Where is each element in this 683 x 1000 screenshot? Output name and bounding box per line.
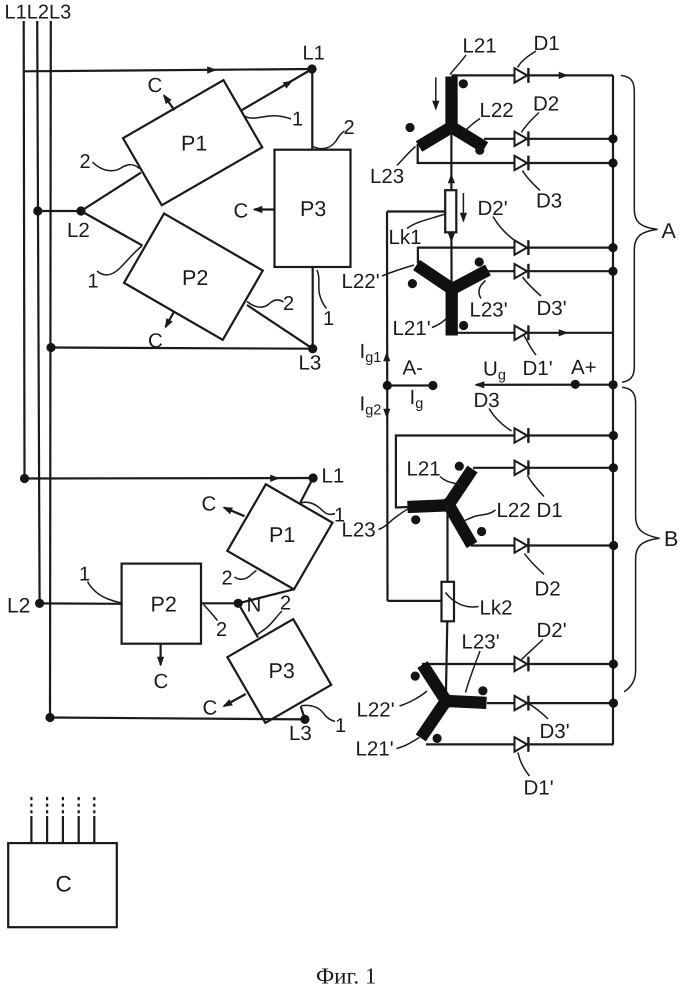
diode D3' [515, 264, 529, 279]
wire Y B1 center to Lk2 [446, 505, 448, 582]
svg-text:L22: L22 [497, 499, 531, 522]
winding of B: thick Y rotated [408, 469, 473, 545]
leader 2 of bottom P2 [204, 605, 218, 621]
transformer P3 (top) [275, 150, 351, 267]
node L3 [308, 344, 317, 353]
arrow down below Lk1 [448, 233, 455, 243]
node L1 bottom [309, 473, 318, 482]
wire Lk2 to Y B2 [446, 621, 448, 700]
svg-text:2: 2 [80, 151, 91, 173]
transformer P2 (top) [124, 214, 263, 340]
wire D1' row A [455, 332, 613, 334]
svg-text:C: C [154, 670, 169, 693]
svg-text:1: 1 [292, 109, 303, 131]
svg-text:Ig: Ig [410, 386, 424, 412]
wire D3' row A [486, 270, 613, 272]
diode D1 B [515, 460, 529, 475]
svg-text:A-: A- [403, 357, 424, 380]
svg-text:A: A [662, 219, 677, 243]
leader 1 of P2 [97, 246, 142, 275]
node L1 top [307, 64, 316, 73]
wire D1 row A [452, 74, 614, 76]
arrow C from P1 [164, 96, 175, 111]
svg-text:D2': D2' [537, 619, 567, 642]
wire L2 vertical feeder [37, 21, 39, 603]
node N [234, 599, 243, 608]
svg-text:Ug: Ug [483, 358, 506, 384]
svg-text:D2': D2' [478, 197, 508, 220]
wire L3 vertical feeder [49, 21, 52, 718]
wire D1' row B [426, 743, 613, 745]
svg-text:L1L2L3: L1L2L3 [5, 2, 72, 24]
svg-text:2: 2 [280, 593, 291, 615]
wire P3 to L3 bottom [301, 706, 305, 719]
brace A [621, 75, 658, 382]
svg-text:D1': D1' [524, 777, 554, 800]
arrow C from P3 [254, 208, 275, 210]
transformer P1 (top) [123, 80, 262, 205]
node on L1 feeder bottom [20, 474, 29, 483]
svg-text:D2: D2 [533, 93, 559, 116]
svg-text:L22': L22' [342, 270, 380, 293]
leader 2 of P1 [93, 162, 140, 171]
wire P2 to L3 [247, 305, 313, 349]
leader 2 of P2 [247, 300, 284, 307]
winding dots Y A2 [408, 279, 417, 288]
diode D1' [515, 325, 529, 340]
node L2 [76, 206, 85, 215]
leader 1 of bottom P3 [301, 705, 335, 721]
svg-text:C: C [203, 697, 218, 720]
diode D2' B [515, 657, 529, 672]
svg-text:P2: P2 [182, 266, 208, 290]
svg-text:L23: L23 [370, 165, 404, 188]
wire left bus A [386, 212, 389, 601]
svg-text:L3: L3 [289, 722, 312, 745]
transformer P1 (bottom) [227, 484, 332, 589]
svg-text:D1: D1 [537, 499, 563, 522]
wire Ug arrow row [476, 384, 613, 386]
node A- terminal [428, 381, 437, 390]
arrow on top L1 row [207, 66, 217, 73]
wire L2 to P2 bottom [40, 602, 122, 605]
wire D2 row A [484, 138, 613, 140]
svg-text:L2: L2 [67, 219, 90, 242]
svg-text:2: 2 [222, 568, 233, 590]
wire L2 to P1 winding 2 [81, 173, 141, 211]
arrow Ig2 down on left bus [383, 409, 390, 419]
svg-text:P3: P3 [269, 659, 295, 683]
svg-text:D1: D1 [534, 32, 560, 55]
node A+ bus [609, 380, 618, 389]
svg-text:L23: L23 [342, 519, 376, 542]
node A+ terminal [571, 380, 580, 389]
wire D3 row B [396, 436, 614, 508]
wire top L1 row [24, 69, 312, 71]
wire N to P2 [201, 602, 238, 604]
svg-text:L21: L21 [407, 458, 441, 481]
svg-text:2: 2 [216, 619, 227, 641]
svg-text:N: N [247, 594, 262, 617]
winding L21 of A: thick Y [419, 77, 485, 148]
wire L1 to P1 winding 1 [242, 69, 312, 110]
node A- bus [383, 381, 392, 390]
wire Y A1 center to Lk1 [450, 130, 452, 190]
arrow Ig1 up on left bus [383, 352, 390, 362]
node L2 on feeder [33, 206, 42, 215]
winding dots Y B1 [455, 462, 464, 471]
pin lines of C [31, 797, 94, 843]
svg-text:P2: P2 [151, 593, 177, 617]
svg-text:P1: P1 [269, 523, 295, 547]
arrow C from bottom P1 [224, 508, 245, 517]
wire A- stub [387, 384, 433, 386]
svg-text:D3': D3' [540, 720, 570, 743]
wire D2' row B [422, 663, 613, 665]
wire P3 to L3 [312, 267, 314, 349]
wire L1 to P3 primary [311, 69, 313, 150]
svg-text:L1: L1 [322, 465, 345, 488]
svg-text:1: 1 [88, 271, 99, 293]
current arrow beside L21 [435, 78, 437, 110]
wire right bus [612, 75, 614, 744]
svg-text:Lk2: Lk2 [480, 597, 513, 620]
wire D3 row A [418, 144, 613, 163]
wire top L3 row [51, 348, 313, 349]
transformer P3 (bottom) [227, 619, 331, 723]
svg-text:Фиг. 1: Фиг. 1 [316, 964, 376, 989]
wire bottom L1 row [25, 477, 314, 480]
diode D2' [515, 240, 529, 255]
diode D2 [515, 131, 529, 146]
wire D2' row A [418, 248, 613, 264]
arrow C from P2 [166, 311, 175, 327]
leader 1 of bottom P2 [88, 582, 122, 603]
diode D2 B [515, 538, 529, 553]
wire L2 stub [38, 210, 81, 212]
wire D2 row B [471, 544, 614, 546]
svg-text:D2: D2 [535, 578, 561, 601]
wire D3' row B [487, 702, 613, 704]
node L3 bottom [300, 715, 309, 724]
node L3 feeder [46, 343, 55, 352]
wire Lk2 left connection [388, 600, 442, 602]
svg-text:L1: L1 [303, 43, 325, 65]
svg-text:D3': D3' [537, 297, 567, 320]
arrow up above Lk1 [448, 174, 455, 184]
leader 1 of P3 [317, 270, 327, 309]
node on L3 feeder bottom [45, 713, 54, 722]
svg-text:2: 2 [344, 117, 355, 139]
svg-text:P3: P3 [300, 197, 326, 221]
transformer P2 (bottom) [122, 564, 201, 644]
reactor Lk1 [445, 190, 456, 232]
svg-text:1: 1 [323, 308, 334, 330]
wire L1 to P1 bottom [300, 478, 313, 503]
svg-text:C: C [202, 493, 217, 516]
winding dots Y B2 [411, 672, 420, 681]
svg-text:L2: L2 [7, 595, 30, 618]
leader 2 of bottom P1 [235, 571, 257, 580]
node L2 bottom [35, 599, 44, 608]
svg-text:C: C [56, 872, 72, 897]
diode D3 [515, 156, 529, 171]
diode D1' B [515, 737, 529, 752]
svg-text:L22': L22' [357, 699, 395, 722]
svg-text:A+: A+ [571, 356, 597, 379]
svg-text:1: 1 [335, 715, 346, 737]
svg-text:Ig2: Ig2 [360, 393, 382, 419]
diode D3' B [515, 696, 529, 711]
arrow C from bottom P3 [224, 694, 246, 706]
leader 2 of bottom P3 [258, 611, 283, 635]
wire bottom L3 row [50, 718, 305, 720]
winding dots Y A1 [459, 79, 468, 88]
wire L1 vertical feeder [23, 21, 26, 479]
wire L2 to P2 winding 1 [81, 211, 143, 246]
svg-text:L22: L22 [480, 99, 514, 122]
winding of B lower: thick Y rotated [421, 665, 487, 738]
svg-text:P1: P1 [181, 132, 207, 156]
arrow on bottom L1 row [270, 475, 280, 482]
leader 1 of P1 [245, 116, 292, 119]
svg-text:D1': D1' [523, 357, 553, 380]
svg-text:1: 1 [79, 564, 90, 586]
winding L21' of A: inverted thick Y [417, 265, 489, 336]
svg-text:D3: D3 [474, 389, 500, 412]
svg-text:Lk1: Lk1 [389, 226, 422, 249]
svg-text:L21': L21' [356, 738, 394, 761]
reactor Lk2 [442, 582, 455, 622]
leader 2 of P3 [313, 131, 345, 149]
diode D1 [515, 68, 529, 83]
arrow toward L1 [283, 77, 295, 88]
wire N to P3 bottom [238, 603, 258, 637]
wire P1 to node N [238, 589, 294, 603]
svg-text:D3: D3 [536, 190, 562, 213]
svg-text:L3: L3 [299, 352, 322, 375]
arrow on D1 row A [559, 72, 569, 79]
svg-text:L23': L23' [462, 631, 500, 654]
control unit C box [8, 843, 117, 927]
arrow C from bottom P2 [160, 644, 162, 665]
arrow beside Lk1 [462, 193, 464, 221]
leader 1 of bottom P1 [301, 502, 336, 514]
svg-text:C: C [234, 200, 249, 223]
wire D1 row B [473, 467, 613, 469]
svg-text:Ig1: Ig1 [360, 340, 382, 366]
svg-text:C: C [148, 74, 163, 97]
brace B [622, 387, 659, 692]
diode D3 B [515, 428, 529, 443]
svg-text:L21': L21' [393, 317, 431, 340]
svg-text:L23': L23' [470, 299, 508, 322]
svg-text:2: 2 [283, 293, 294, 315]
svg-text:L21: L21 [463, 35, 497, 58]
svg-text:B: B [664, 527, 678, 551]
wire Lk1 to Y A2 [450, 232, 452, 288]
wire Lk1 left connection [387, 210, 445, 212]
